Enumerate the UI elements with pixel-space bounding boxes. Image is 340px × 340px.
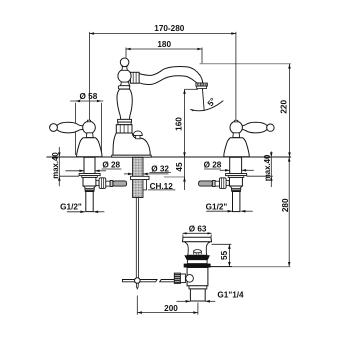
- left valve tailpipe: [86, 192, 93, 212]
- dim D63 arrows: [183, 232, 187, 234]
- dim max40 right top arrow: [270, 152, 273, 157]
- right valve rings: [231, 188, 240, 190]
- dim D28 left line: [65, 170, 84, 172]
- swivel arc 5deg: [190, 101, 223, 111]
- dim 160 top extension: [185, 88, 199, 90]
- dim 220 top arrow: [288, 64, 291, 69]
- dim D28 right underline: [204, 168, 221, 170]
- svg-text:Ø 32: Ø 32: [151, 164, 169, 173]
- dim 280 top arrow: [288, 157, 291, 162]
- right handle lever grip: [240, 122, 267, 133]
- right valve hose pipe: [215, 181, 219, 186]
- dim 170-280 left extension: [89, 32, 91, 121]
- right valve flange: [226, 174, 247, 176]
- dim G12 right arrows: [228, 210, 233, 213]
- svg-text:max.40: max.40: [51, 152, 60, 179]
- drain ball housing: [186, 275, 194, 283]
- dim D32 line: [124, 173, 133, 175]
- dim G12 left arrows: [80, 211, 85, 214]
- right valve tailpipe: [233, 192, 240, 212]
- spout joint ball: [118, 69, 131, 82]
- left valve flange: [79, 174, 100, 176]
- svg-text:G1/2": G1/2": [206, 203, 228, 212]
- dim G114 arrows: [186, 300, 191, 303]
- dim D32 underline: [149, 172, 171, 174]
- dim 180 left extension: [125, 48, 127, 58]
- dim 200 right extension: [197, 303, 199, 315]
- dim 160-45 vertical line: [184, 89, 186, 190]
- dim 170-280 line: [90, 33, 236, 35]
- svg-text:Ø 28: Ø 28: [102, 160, 120, 169]
- right handle skirt: [224, 138, 249, 157]
- left valve hose pipe: [106, 181, 110, 186]
- svg-text:160: 160: [175, 117, 184, 131]
- dim 160 top arrow: [183, 89, 186, 94]
- dim 170-280 right arrow: [231, 32, 236, 35]
- dim D28 left underline: [102, 168, 122, 170]
- dim 45 bottom arrow: [183, 177, 186, 182]
- dim G12 right line: [206, 210, 232, 212]
- popup lever left segment: [122, 280, 157, 282]
- spout tube: [139, 67, 203, 85]
- left handle skirt: [77, 138, 102, 157]
- svg-text:55: 55: [220, 250, 229, 260]
- right handle lever knob: [267, 124, 274, 131]
- popup rod knob: [133, 131, 142, 136]
- spout collar nut: [130, 72, 139, 83]
- svg-text:220: 220: [280, 100, 289, 114]
- drain cap: [183, 237, 212, 242]
- drain lever knurled knob: [174, 273, 180, 283]
- dim G12 left line: [67, 211, 85, 213]
- left handle stem: [86, 133, 93, 138]
- dim 55 black part of bottom reference: [210, 266, 233, 268]
- left valve side port neck: [96, 181, 99, 186]
- dim D63 line: [183, 232, 212, 234]
- dim D63 extensions: [182, 235, 184, 238]
- right valve side port neck: [226, 181, 229, 186]
- spout finial neck: [122, 66, 128, 70]
- spout column rings: [118, 119, 132, 122]
- swivel arc arrow: [190, 109, 193, 111]
- svg-text:CH.12: CH.12: [150, 182, 174, 191]
- drain neck: [184, 242, 210, 255]
- left handle pivot ball: [83, 121, 96, 134]
- dim 200 arrows: [137, 311, 142, 314]
- svg-text:180: 180: [157, 40, 171, 49]
- dim max40 left line: [58, 147, 60, 186]
- spout shank flange: [131, 176, 149, 179]
- drain tailpipe: [190, 289, 205, 301]
- left handle lever knob: [50, 124, 58, 132]
- drain overflow cylinder: [194, 250, 202, 253]
- right handle ball top nub: [235, 120, 238, 122]
- dim D32 arrows: [128, 173, 133, 176]
- dim 200 left extension: [136, 296, 138, 315]
- svg-text:G1/2": G1/2": [60, 202, 82, 211]
- ghost line drain bottom level: [210, 266, 291, 268]
- svg-text:170-280: 170-280: [154, 24, 184, 33]
- dim max40 left bottom arrow: [58, 176, 61, 181]
- dim max40 right line: [270, 151, 272, 187]
- dim 170-280 right extension: [235, 32, 237, 121]
- left hose ferrule: [110, 181, 113, 187]
- right valve taper: [230, 186, 242, 188]
- spout baluster column: [117, 89, 132, 119]
- dim 55 top extension: [212, 243, 232, 245]
- dim 180 right arrow: [197, 48, 202, 51]
- svg-text:Ø 58: Ø 58: [80, 92, 98, 101]
- dim 55 arrows: [228, 244, 231, 249]
- right valve body: [230, 177, 243, 186]
- svg-text:max.40: max.40: [263, 154, 272, 181]
- drain bottom plate: [189, 286, 207, 289]
- dim max40 left top arrow: [58, 152, 61, 157]
- right supply hose: [199, 181, 213, 186]
- spout aerator tip: [197, 86, 207, 88]
- spout shank hex CH12: [143, 180, 146, 190]
- dim 160 bottom arrow: [183, 152, 186, 157]
- dim max40 right bottom arrow: [270, 176, 273, 181]
- dim 180 line: [126, 48, 202, 50]
- dim 280 bottom arrow: [288, 262, 291, 267]
- dim D58 left extension: [75, 103, 77, 155]
- svg-text:200: 200: [164, 304, 178, 313]
- popup rod: [135, 198, 137, 278]
- svg-text:G1"1/4: G1"1/4: [217, 290, 244, 299]
- spout neck under ball: [120, 82, 130, 86]
- dim D58 line: [70, 100, 103, 102]
- dim D58 left arrow: [76, 100, 81, 103]
- drain lever hex: [180, 274, 185, 283]
- left valve shank: [84, 157, 95, 173]
- popup lever right segment: [160, 280, 175, 282]
- dim 280 line: [288, 157, 290, 267]
- dim 180 right extension: [201, 48, 203, 64]
- left handle lever grip: [57, 122, 85, 133]
- left handle ball top nub: [87, 120, 90, 122]
- right hose ferrule: [212, 181, 215, 187]
- dim 220 bottom arrow: [288, 152, 291, 157]
- drain washer lower: [184, 264, 211, 268]
- dim 220 line: [289, 64, 291, 157]
- dim D28 right arrows: [225, 169, 230, 172]
- left valve body: [83, 177, 96, 186]
- drain washer upper: [184, 255, 210, 260]
- ghost line extended spout position: [200, 63, 291, 65]
- svg-text:Ø 63: Ø 63: [189, 225, 207, 234]
- drain band: [187, 260, 207, 264]
- outlet tilted axis: [202, 87, 204, 111]
- left valve taper: [83, 186, 95, 188]
- dim max40 right extension: [247, 175, 273, 177]
- dim D58 right arrow: [97, 100, 102, 103]
- dim max40 left extension: [59, 175, 79, 177]
- svg-text:280: 280: [281, 198, 290, 212]
- dim 55 line: [228, 244, 230, 266]
- dim 170-280 left arrow: [90, 32, 95, 35]
- drain body: [187, 268, 208, 286]
- dim 200 line: [137, 312, 198, 314]
- left supply hose: [113, 181, 127, 186]
- svg-text:45: 45: [175, 162, 184, 172]
- left valve rings: [85, 188, 94, 190]
- spout base: [113, 133, 150, 155]
- spout foot block: [116, 125, 132, 133]
- spout threaded shank: [133, 157, 143, 197]
- dim D58 right extension: [101, 103, 103, 155]
- popup rod ball joint: [135, 278, 141, 284]
- popup rod lower tip: [136, 283, 138, 289]
- dim G114 line: [177, 300, 191, 302]
- deck countertop line: [46, 156, 291, 158]
- left valve side nut: [99, 178, 106, 189]
- dim 180 left arrow: [126, 48, 131, 51]
- dim D28 right line: [220, 169, 230, 171]
- right valve shank: [230, 157, 242, 173]
- label CH12 underline: [148, 189, 175, 191]
- dim D28 left arrows: [79, 170, 84, 173]
- ghost line under-spout clearance: [164, 176, 185, 178]
- right valve side nut: [219, 178, 226, 189]
- spout collar ring: [118, 86, 129, 89]
- spout base plinth: [112, 155, 152, 157]
- spout finial ball: [120, 58, 129, 67]
- spout aerator knurled band: [196, 83, 208, 86]
- right handle stem: [233, 133, 240, 138]
- right handle pivot ball: [230, 121, 242, 133]
- svg-text:Ø 28: Ø 28: [204, 160, 222, 169]
